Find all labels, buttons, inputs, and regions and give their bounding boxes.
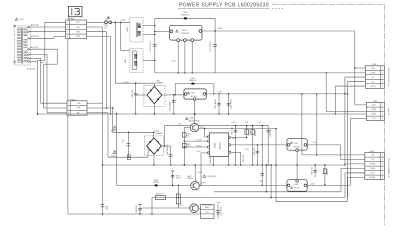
svg-text:T801: T801 <box>19 19 25 21</box>
svg-text:R819: R819 <box>232 138 236 140</box>
svg-text:(-12V): (-12V) <box>179 205 184 207</box>
svg-text:R811: R811 <box>187 144 191 146</box>
bottom rail B <box>142 207 190 209</box>
svg-text:S1WBA60: S1WBA60 <box>155 132 163 135</box>
svg-text:6: 6 <box>382 177 383 179</box>
svg-text:0.01: 0.01 <box>206 212 209 214</box>
wire IC800 pin wires to ground bus <box>177 42 179 73</box>
wire IC801 out pin a <box>231 137 247 139</box>
+5V rail <box>206 93 348 95</box>
svg-text:3: 3 <box>67 31 68 33</box>
svg-text:R812 4.7K: R812 4.7K <box>249 127 251 135</box>
resistor R820 <box>324 165 326 184</box>
capacitor C819 <box>261 126 263 186</box>
svg-text:R820 1K: R820 1K <box>327 168 329 175</box>
svg-text:0.1: 0.1 <box>122 142 124 144</box>
board boundary dash-dot line (right) <box>383 5 385 225</box>
capacitor C821 <box>234 126 236 165</box>
svg-text:C817 470/16: C817 470/16 <box>231 99 233 109</box>
capacitor C816 <box>218 94 220 114</box>
wire to IC801 pin3 <box>184 146 207 148</box>
capacitor C825 <box>172 171 174 185</box>
capacitor C814 <box>173 95 175 114</box>
wire tap5 <box>29 57 40 59</box>
wire to bridge D804 AC1 <box>112 108 114 132</box>
transformer T803 inner <box>133 51 137 70</box>
wire IC801 bottom pins <box>213 156 215 165</box>
capacitor C826 <box>139 205 141 215</box>
thermistor TH801 <box>105 21 108 24</box>
regulator block 1 left rail <box>154 18 156 73</box>
capacitor C819 label <box>203 175 206 178</box>
wire + riser <box>164 126 166 146</box>
wire P806 pin2 right <box>87 26 103 28</box>
svg-text:C831 100/10: C831 100/10 <box>220 207 222 216</box>
capacitor C823 <box>267 126 269 165</box>
transistor Q801 <box>190 123 198 131</box>
svg-text:10/25: 10/25 <box>232 122 236 124</box>
svg-text:(15.8V): (15.8V) <box>197 140 202 142</box>
svg-text:ERA91-02: ERA91-02 <box>181 13 189 16</box>
bridge rectifier D801 outline <box>144 85 165 106</box>
wire +24V output <box>202 30 355 32</box>
wire +5V to P807 pin2 <box>340 145 342 159</box>
wire P806 pin4 right <box>87 35 111 37</box>
svg-text:1SS133: 1SS133 <box>153 182 159 184</box>
svg-text:0.01: 0.01 <box>104 27 107 29</box>
svg-text:1: 1 <box>382 68 383 70</box>
wire bridge D801 AC in top <box>153 83 155 86</box>
wire +12V to P803 pin4 <box>350 118 352 185</box>
svg-text:R813 1K: R813 1K <box>255 129 257 136</box>
diode D806 <box>155 184 158 186</box>
warning triangle AC line 2 <box>113 150 117 153</box>
svg-text:AC(9)-(8): AC(9)-(8) <box>31 35 39 38</box>
wire IC803 ground <box>296 152 298 166</box>
svg-text:TO MAIN PCB (P01): TO MAIN PCB (P01) <box>387 158 390 177</box>
wire jog B <box>41 61 44 63</box>
svg-text:5D-9: 5D-9 <box>105 20 109 22</box>
capacitor C813 <box>135 83 137 114</box>
diode D802 <box>184 17 187 19</box>
svg-text:SI-3052V: SI-3052V <box>191 96 199 98</box>
wire P805 pin2 right <box>87 107 113 109</box>
transformer T801 secondary winding <box>24 27 28 29</box>
diode D803 <box>191 83 194 85</box>
svg-text:IC803: IC803 <box>294 143 298 145</box>
svg-text:0.0047: 0.0047 <box>124 82 129 84</box>
svg-text:3: 3 <box>382 114 383 116</box>
-12V input rail <box>117 184 191 186</box>
capacitor across AC lines <box>128 132 130 157</box>
svg-text:(-12V): (-12V) <box>200 183 205 185</box>
resistor R812 <box>246 126 248 138</box>
svg-text:C815 470/50: C815 470/50 <box>210 41 212 51</box>
svg-text:D806: D806 <box>154 180 158 182</box>
svg-text:S.GND: S.GND <box>370 168 376 170</box>
svg-text:C801: C801 <box>104 25 108 27</box>
transformer T801 primary winding <box>17 27 21 29</box>
svg-text:2: 2 <box>67 27 68 29</box>
transformer T802 core <box>136 23 138 38</box>
svg-text:4: 4 <box>67 36 68 38</box>
warning triangle AC line 1 <box>113 126 117 129</box>
svg-text:ERA91-02: ERA91-02 <box>189 79 197 82</box>
svg-text:2: 2 <box>382 109 383 111</box>
svg-text:NF801: NF801 <box>205 207 210 209</box>
transformer taps with terminals <box>27 26 29 28</box>
transformer T801 core <box>21 28 23 64</box>
wire bridge D804 + output <box>161 145 170 147</box>
wire bridge D801 - output <box>153 104 155 114</box>
bridge rectifier D801 <box>147 86 162 104</box>
svg-text:2: 2 <box>68 108 69 110</box>
svg-text:4: 4 <box>382 168 383 170</box>
filter box NF801 <box>201 205 215 219</box>
svg-text:C829 1/50: C829 1/50 <box>243 155 245 162</box>
svg-text:TO P05: TO P05 <box>389 107 391 115</box>
wire to P802 pin3 and P807 pin3 <box>344 77 346 164</box>
svg-text:T802: T802 <box>127 26 129 32</box>
fuse F802 <box>127 155 130 160</box>
wire -12V input rail riser <box>116 114 118 185</box>
wire to bridge D801 <box>114 22 116 83</box>
capacitor C817 <box>228 94 230 114</box>
svg-text:AC(5)-(3): AC(5)-(3) <box>27 67 35 70</box>
svg-text:POWER SUPPLY PCB L600285030: POWER SUPPLY PCB L600285030 <box>179 3 269 9</box>
svg-text:2: 2 <box>382 72 383 74</box>
svg-text:R810: R810 <box>187 134 191 136</box>
ground bus S.GND <box>155 72 365 74</box>
svg-text:S.GND: S.GND <box>370 164 376 166</box>
svg-text:R817: R817 <box>217 202 221 204</box>
wire T802 sec pin1 <box>143 25 155 27</box>
wire +24V to P802 pin1 <box>354 31 356 105</box>
svg-text:(3.3V): (3.3V) <box>245 149 250 151</box>
transformer T802 windings <box>138 23 141 25</box>
wire Q801 collector <box>194 114 196 123</box>
wire routing to P807 pin5 <box>270 165 272 198</box>
svg-text:S.GND: S.GND <box>371 109 377 111</box>
svg-text:5: 5 <box>382 173 383 175</box>
wire S.GND branch to P803 pin2 <box>325 73 327 112</box>
wire jog C <box>44 63 58 65</box>
wire to P802 pin4 and P807 pin5 <box>347 82 349 198</box>
wire IC802 ground pin <box>194 100 196 114</box>
svg-text:2SB816: 2SB816 <box>187 178 193 180</box>
regulator IC802 <box>184 89 206 99</box>
connector P807 <box>365 153 385 180</box>
svg-text:C823 1/50: C823 1/50 <box>270 129 272 136</box>
svg-text:SI-3052V: SI-3052V <box>293 147 299 149</box>
wire tap4 <box>29 54 47 56</box>
wire from sheet box to connector P806 <box>68 17 70 20</box>
regulator block 1 top rail <box>155 17 215 19</box>
bottom ground rail <box>68 213 201 215</box>
svg-text:5.8V: 5.8V <box>218 91 223 93</box>
S.GND rail <box>37 113 366 115</box>
svg-text:SI-3122V: SI-3122V <box>293 188 299 190</box>
capacitor C832 on riser <box>101 204 105 206</box>
svg-text:C819 470/16: C819 470/16 <box>207 176 217 178</box>
svg-text:STR5412: STR5412 <box>182 33 190 35</box>
-12V rail to regulator <box>199 184 287 186</box>
bridge rectifier D804 <box>147 138 162 154</box>
wire P806 pin1 left <box>45 21 66 23</box>
sheet number box 13 <box>68 7 82 17</box>
wire bridge D804 - output <box>153 154 155 165</box>
regulator block 1 right rail <box>214 18 216 73</box>
svg-text:C826 0.01: C826 0.01 <box>136 205 138 212</box>
svg-text:AC(7)-(4): AC(7)-(4) <box>31 23 39 26</box>
wire routing to P807 pin6 RELAY <box>275 129 277 202</box>
transistor Q803 <box>190 204 199 213</box>
wire tap3 <box>29 48 57 50</box>
wire IC801 out pin b <box>231 144 287 146</box>
transformer T801 label <box>15 18 18 21</box>
wire tap1 to P806 pin2 <box>29 26 65 28</box>
capacitor C820 <box>170 146 172 165</box>
svg-text:IC802: IC802 <box>191 92 195 94</box>
wire AC1 into top vertex <box>153 132 155 138</box>
bridge rectifier D804 outline <box>144 136 163 155</box>
wire bridge D801 AC in left <box>136 94 147 96</box>
wire P805 pin1 riser down <box>102 103 104 214</box>
ground trunk from P806 <box>67 39 69 101</box>
resistor R815 rail riser <box>151 198 153 215</box>
svg-text:R801: R801 <box>122 20 126 22</box>
connector P803 <box>366 103 384 121</box>
wire +5V to P807 pin1 <box>302 154 365 156</box>
wire Q802 collector <box>194 165 196 181</box>
capacitor C827 <box>217 205 219 219</box>
AC feed 2 to bridge D804 <box>108 156 148 158</box>
resistor R816 <box>177 185 179 208</box>
svg-text:C816 100/16: C816 100/16 <box>215 99 217 109</box>
wire +5V branch down B <box>316 94 318 155</box>
mounting cross top <box>13 25 16 28</box>
wire P805 pin2 left <box>44 107 67 109</box>
svg-text:C832: C832 <box>105 206 109 208</box>
svg-text:IC800: IC800 <box>182 30 187 32</box>
wire P805 pin1 right <box>87 102 103 104</box>
svg-text:0.022: 0.022 <box>105 209 109 211</box>
analog ground rail <box>103 164 345 166</box>
capacitor C824 <box>314 165 316 177</box>
wire bridge D801 + output <box>162 94 185 96</box>
svg-text:R815 4.7K: R815 4.7K <box>156 194 164 196</box>
regulator IC803 <box>287 139 307 151</box>
wire Q801 base <box>184 127 190 129</box>
svg-text:+24V: +24V <box>217 28 223 30</box>
svg-text:TO CPU PCB (P02): TO CPU PCB (P02) <box>388 68 390 87</box>
svg-text:3: 3 <box>382 77 383 79</box>
svg-text:4: 4 <box>382 81 383 83</box>
wire Q801 emitter rail <box>199 128 276 130</box>
wire IC803 output <box>307 144 341 146</box>
node on pin1 wire <box>115 22 116 23</box>
svg-text:S.GND: S.GND <box>370 72 376 74</box>
svg-text:(2.1V): (2.1V) <box>197 151 202 153</box>
ground trunk below P805 <box>67 115 69 214</box>
+12V unreg rail <box>165 125 269 127</box>
svg-text:C812 470/35: C812 470/35 <box>150 41 152 51</box>
wire jog A <box>37 60 44 62</box>
svg-text:S.GND: S.GND <box>371 114 377 116</box>
hybrid IC800 STR5412 <box>170 25 202 40</box>
svg-text:C813 1/50: C813 1/50 <box>132 90 134 98</box>
resistor R811 <box>183 143 187 148</box>
wire to IC801 pin2 <box>184 140 207 142</box>
wire tap2 <box>29 37 54 39</box>
svg-text:C824 47/16: C824 47/16 <box>311 167 313 175</box>
svg-text:2: 2 <box>382 159 383 161</box>
resistor chain <box>183 128 185 165</box>
resistor R813 <box>252 126 254 165</box>
wire IC804 top pin <box>296 165 298 180</box>
svg-text:(16.8V): (16.8V) <box>197 145 202 147</box>
wire T803 sec pin <box>143 60 155 62</box>
svg-text:C828: C828 <box>259 181 263 183</box>
wire tap AC row3 <box>29 31 65 33</box>
wire P805 pin3 right <box>87 112 108 114</box>
svg-text:1: 1 <box>382 155 383 157</box>
svg-text:IC801: IC801 <box>214 142 216 149</box>
transformer T803 windings <box>134 54 137 56</box>
wire to P802 pin5 <box>335 86 337 114</box>
svg-text:C830 10/16: C830 10/16 <box>210 156 212 164</box>
svg-text:S1WBA60: S1WBA60 <box>156 82 164 85</box>
wire +5V branch down A <box>301 94 303 155</box>
svg-text:RELAY: RELAY <box>370 176 376 179</box>
svg-text:1/50: 1/50 <box>245 122 248 124</box>
svg-text:Q801: Q801 <box>190 118 194 120</box>
svg-text:150: 150 <box>187 135 190 137</box>
connector P806 <box>66 20 87 39</box>
wire P805 pin3 left <box>47 112 67 114</box>
wire P806 pin4 left <box>54 35 66 37</box>
svg-text:C821 1/50: C821 1/50 <box>232 127 234 134</box>
wire T802 sec pin2 <box>143 34 155 36</box>
svg-text:5: 5 <box>382 86 383 88</box>
transistor Q802 <box>191 181 200 190</box>
svg-text:C820 1000/35: C820 1000/35 <box>167 145 169 156</box>
regulator IC804 <box>287 180 307 192</box>
wire IC800 input <box>155 30 170 32</box>
svg-text:T803: T803 <box>125 58 127 64</box>
capacitor C815 <box>213 44 217 46</box>
wire P805 pin1 left <box>41 102 67 104</box>
wire routing to P807 pin4 <box>265 165 267 192</box>
wire IC801 out pin c <box>231 151 241 153</box>
wire IC804 output <box>307 184 351 186</box>
svg-text:C825: C825 <box>176 175 180 177</box>
svg-text:470/16: 470/16 <box>176 177 181 179</box>
error amp IC801 <box>209 133 228 157</box>
svg-text:C822 1/50: C822 1/50 <box>254 148 256 155</box>
wire AC2 into left vertex <box>147 146 149 157</box>
connector P802 <box>365 66 384 89</box>
svg-text:(-8.4V): (-8.4V) <box>197 172 202 174</box>
svg-text:M5237L: M5237L <box>219 141 221 149</box>
svg-text:4.7K: 4.7K <box>258 122 261 124</box>
transistor Q801 label <box>185 117 188 119</box>
connector P805 <box>67 101 87 115</box>
capacitor C812 <box>153 44 157 46</box>
svg-text:3: 3 <box>382 164 383 166</box>
transformer T802 dashed outline <box>130 17 143 42</box>
svg-text:AC(2)-(1): AC(2)-(1) <box>31 46 39 49</box>
svg-text:IC804: IC804 <box>294 184 298 186</box>
mounting cross bottom <box>13 61 16 64</box>
svg-text:1: 1 <box>382 105 383 107</box>
svg-text:S.GND: S.GND <box>370 86 376 88</box>
svg-text:2SD2012(Y)(R): 2SD2012(Y)(R) <box>188 121 199 123</box>
wire tap6 <box>29 61 37 63</box>
wire to transformer T803 <box>120 22 122 50</box>
capacitor C822 <box>256 145 258 165</box>
board boundary dash-dot line (top-right) <box>272 4 384 6</box>
transformer T801 dashed outline <box>15 26 31 65</box>
regulator block 2 loop <box>174 84 176 95</box>
wire Q803 right <box>198 207 200 209</box>
transformer T803 dashed outline <box>130 48 143 72</box>
svg-text:1: 1 <box>67 22 68 24</box>
wire P806 pin3 right <box>87 31 107 33</box>
wire left AC trunk down <box>36 61 38 114</box>
svg-text:C814 1000/16: C814 1000/16 <box>170 101 172 112</box>
wire +24V to P803 pin1 <box>355 104 367 106</box>
svg-text:C8: C8 <box>122 140 124 142</box>
thermistor TH801 label <box>107 16 110 19</box>
wire to IC801 pin4 <box>201 152 207 154</box>
title underline <box>178 7 271 9</box>
resistor R810 <box>183 133 187 138</box>
svg-text:4: 4 <box>382 118 383 120</box>
wire P806 pin1 right with thermistors <box>87 21 130 23</box>
svg-text:1: 1 <box>68 103 69 105</box>
resistor R815 <box>156 195 166 199</box>
